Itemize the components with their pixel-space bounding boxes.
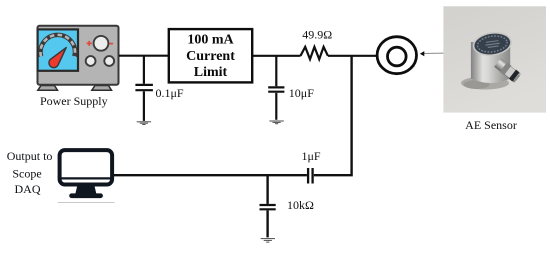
wire 10uF branch (275, 56, 277, 87)
monitor base (69, 193, 103, 198)
wire monitor to 1uF (114, 174, 307, 176)
svg-text:10kΩ: 10kΩ (287, 198, 314, 212)
capacitor C2 10uF (268, 87, 284, 91)
capacitor C1 0.1uF (135, 85, 153, 90)
ground G2 (269, 121, 283, 124)
arrow from sensor to connector (423, 52, 443, 54)
ground G3 (261, 239, 275, 243)
PS minus mark (109, 43, 113, 45)
wire 10k branch (266, 175, 268, 204)
svg-text:49.9Ω: 49.9Ω (302, 27, 332, 41)
monitor bezel line (59, 177, 114, 179)
sensor top face (471, 30, 513, 59)
svg-text:Output to: Output to (7, 149, 53, 163)
PS small knob left (86, 56, 96, 66)
svg-text:0.1μF: 0.1μF (156, 86, 184, 100)
PS big knob (94, 36, 109, 51)
wire 0.1uF branch (143, 56, 145, 84)
photo shadow (461, 77, 509, 90)
monitor icon (58, 150, 115, 202)
wire vertical junction to bottom net (314, 56, 352, 175)
wire to ground (266, 210, 268, 237)
resistor R1 49.9ohm (301, 47, 328, 59)
svg-text:AE Sensor: AE Sensor (465, 118, 517, 132)
svg-text:DAQ: DAQ (15, 182, 41, 196)
wire box to resistor (252, 55, 300, 57)
PS screen (38, 29, 78, 70)
svg-text:10μF: 10μF (289, 86, 314, 100)
PS small knob right (104, 56, 114, 66)
sensor connector plug (494, 58, 522, 83)
resistor R2 10k (capacitor-style symbol) (260, 205, 276, 209)
current limit box U1 (169, 29, 252, 82)
svg-text:Current: Current (186, 49, 235, 64)
PS body (38, 26, 119, 85)
wire resistor to connector (328, 55, 376, 57)
PS gauge needle (49, 48, 66, 68)
wire power supply to current limit box (119, 55, 169, 57)
connector J1 inner circle (388, 47, 407, 66)
monitor shadow line (58, 202, 115, 204)
monitor stand (75, 186, 96, 195)
PS foot left (38, 86, 58, 91)
ground G1 (137, 122, 151, 125)
svg-text:Power Supply: Power Supply (40, 94, 108, 108)
svg-text:Scope: Scope (12, 167, 41, 181)
svg-text:1μF: 1μF (302, 149, 321, 163)
wire cap to ground (275, 93, 277, 120)
svg-text:100 mA: 100 mA (187, 33, 234, 48)
monitor frame (60, 150, 113, 184)
capacitor C3 1uF series (308, 168, 313, 184)
PS plus mark (87, 41, 92, 46)
sensor body cylinder (471, 42, 510, 83)
svg-text:Limit: Limit (194, 65, 228, 80)
wire cap to ground (143, 91, 145, 121)
power supply PS1 icon (38, 26, 119, 91)
connector J1 outer circle (377, 37, 416, 74)
AE sensor photo (443, 6, 546, 112)
PS gauge arc (40, 35, 75, 57)
PS foot right (92, 86, 112, 91)
